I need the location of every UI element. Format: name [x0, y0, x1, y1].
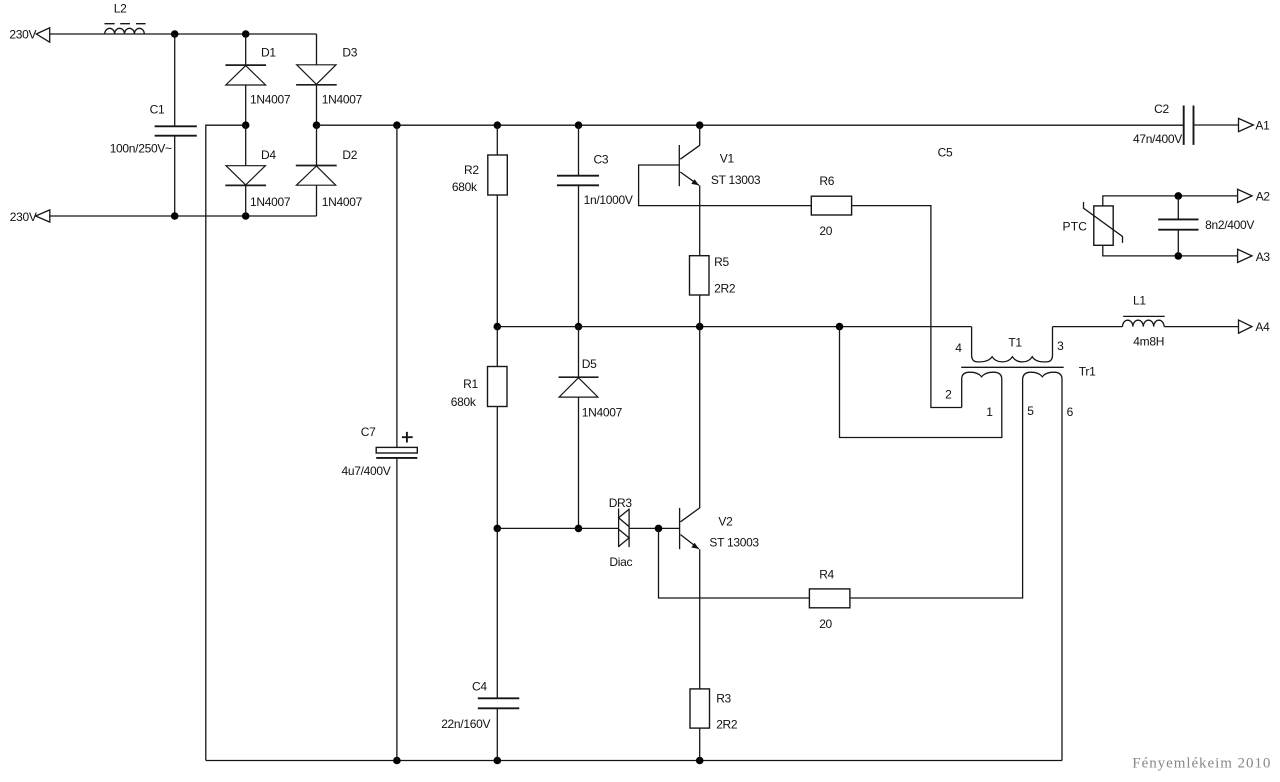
svg-text:4m8H: 4m8H	[1133, 334, 1164, 348]
svg-text:A3: A3	[1256, 250, 1271, 264]
diode D3	[296, 65, 337, 85]
junction bottom rail / C4	[494, 757, 502, 765]
transformer feedback winding pins 2-1	[840, 327, 1002, 438]
svg-text:1N4007: 1N4007	[250, 195, 291, 209]
svg-text:2: 2	[945, 388, 952, 402]
wire C4 bottom	[496, 708, 498, 760]
wire D4 column top	[245, 125, 247, 166]
diac DR3	[619, 509, 630, 548]
svg-text:5: 5	[1027, 404, 1034, 418]
wire L1 to A4	[1164, 326, 1238, 328]
svg-text:1: 1	[986, 405, 993, 419]
wire R2 top	[496, 125, 498, 155]
wire C3 bottom	[578, 185, 580, 326]
wire R1 top	[496, 327, 498, 367]
svg-text:C4: C4	[472, 680, 487, 694]
junction mid-right node	[313, 121, 321, 129]
inductor L1 core bar	[1123, 315, 1165, 317]
wire rail326 to L1	[1053, 326, 1123, 328]
diode D2	[296, 166, 337, 186]
svg-text:680k: 680k	[452, 180, 478, 194]
wire bottom AC rail	[50, 215, 317, 217]
svg-text:230V: 230V	[9, 27, 36, 41]
resistor R6	[811, 196, 851, 215]
transformer core	[961, 366, 1063, 368]
wire PTC top to A2	[1103, 196, 1238, 206]
capacitor C4	[478, 698, 520, 708]
connector A2 arrow	[1238, 189, 1252, 202]
wire C1 column bottom	[174, 136, 176, 216]
svg-text:V1: V1	[720, 152, 735, 166]
svg-text:2R2: 2R2	[716, 717, 738, 731]
junction A3 line / 8n2 cap	[1175, 252, 1183, 260]
wire diac to V2 base	[629, 527, 679, 529]
wire D2 to bottom AC rail	[316, 185, 318, 216]
svg-text:A4: A4	[1255, 320, 1270, 334]
svg-text:PTC: PTC	[1063, 220, 1088, 234]
svg-text:R5: R5	[714, 255, 729, 269]
junction bottom AC rail / C1	[171, 212, 179, 220]
svg-text:1N4007: 1N4007	[322, 93, 363, 107]
wire C7 column top	[396, 125, 398, 447]
svg-text:R2: R2	[464, 163, 479, 177]
diode D1	[225, 65, 266, 85]
svg-text:20: 20	[819, 617, 832, 631]
svg-text:4u7/400V: 4u7/400V	[342, 464, 391, 478]
wire C2 to A1	[1194, 124, 1239, 126]
diode D5	[559, 377, 599, 397]
svg-text:R3: R3	[716, 691, 731, 705]
svg-text:C5: C5	[938, 146, 953, 160]
svg-text:R4: R4	[819, 568, 834, 582]
junction rail528 / R4 drop	[655, 525, 663, 533]
transformer T1 primary winding pins 4-3	[972, 327, 1053, 362]
svg-text:C3: C3	[594, 152, 609, 166]
junction DC plus / C7	[393, 121, 401, 129]
svg-text:R1: R1	[463, 377, 478, 391]
wire V1 base loop to R6	[639, 165, 812, 206]
svg-text:2R2: 2R2	[714, 281, 736, 295]
wire C7 column bottom	[396, 458, 398, 761]
svg-text:T1: T1	[1008, 336, 1022, 350]
wire D5 top	[578, 327, 580, 378]
wire bottom DC minus rail	[206, 760, 1062, 762]
svg-text:C7: C7	[361, 425, 376, 439]
wire D1 column top	[245, 34, 247, 65]
connector 230V top input arrow	[36, 28, 49, 42]
diode D4	[225, 166, 266, 186]
transformer secondary winding pins 5-6	[1023, 372, 1062, 760]
wire R2 bottom	[496, 195, 498, 327]
junction mid-left node	[242, 121, 250, 129]
capacitor 8n2/400V	[1158, 196, 1198, 256]
wire top AC rail right segment	[105, 33, 317, 35]
svg-text:Fényemlékeim 2010: Fényemlékeim 2010	[1132, 755, 1271, 771]
svg-text:L2: L2	[114, 1, 127, 15]
junction DC plus / R2	[494, 121, 502, 129]
wire R4 to T1 pin 5	[850, 380, 1023, 598]
resistor R2	[488, 155, 508, 195]
label + (C7 polarity)	[402, 432, 413, 443]
svg-text:V2: V2	[718, 514, 733, 528]
svg-text:D4: D4	[261, 148, 276, 162]
resistor R4	[809, 589, 850, 608]
junction top rail / C1	[171, 30, 179, 38]
wire C3 top	[578, 125, 580, 176]
svg-text:D5: D5	[582, 357, 597, 371]
junction top rail / D1	[242, 30, 250, 38]
wire R3 bottom	[699, 728, 701, 760]
svg-text:6: 6	[1067, 405, 1074, 419]
resistor R3	[690, 689, 710, 728]
wire C4 top	[496, 528, 498, 698]
wire rail326 left part	[497, 326, 971, 328]
inductor L2 core dashes	[105, 23, 146, 25]
wire D2 column top	[316, 125, 318, 165]
junction rail326 / R1	[494, 323, 502, 331]
junction bottom rail / C7	[393, 757, 401, 765]
wire R5 bottom	[699, 295, 701, 327]
svg-text:1n/1000V: 1n/1000V	[584, 193, 633, 207]
thermistor PTC	[1084, 202, 1123, 245]
junction DC plus / V1 collector	[696, 121, 704, 129]
svg-text:D2: D2	[342, 148, 357, 162]
junction bottom AC rail / D4	[242, 212, 250, 220]
wire D5 bottom	[578, 397, 580, 528]
svg-text:L1: L1	[1133, 294, 1146, 308]
wire D1 to mid-left node	[245, 85, 247, 125]
junction rail528 / C4	[494, 525, 502, 533]
inductor L2	[105, 28, 145, 34]
svg-text:DR3: DR3	[609, 496, 633, 510]
svg-text:D1: D1	[261, 46, 276, 60]
svg-text:C1: C1	[150, 103, 165, 117]
svg-text:Diac: Diac	[609, 555, 632, 569]
inductor L1	[1123, 320, 1165, 326]
capacitor C1	[155, 126, 197, 135]
wire DC plus to C2 done above; capacitor C2	[1184, 106, 1194, 145]
wire D3 to mid-right node	[316, 85, 318, 125]
svg-text:1N4007: 1N4007	[322, 195, 363, 209]
junction rail528 / D5	[575, 525, 583, 533]
transistor V1	[679, 145, 699, 186]
svg-text:4: 4	[955, 341, 962, 355]
svg-text:ST 13003: ST 13003	[709, 535, 759, 549]
connector 230V bottom input arrow	[36, 210, 50, 222]
svg-text:D3: D3	[342, 46, 357, 60]
wire rail528 left part	[497, 527, 618, 529]
svg-text:3: 3	[1057, 339, 1064, 353]
svg-text:100n/250V~: 100n/250V~	[110, 141, 172, 155]
wire mid-left node to DC minus drop	[206, 125, 246, 760]
svg-text:47n/400V: 47n/400V	[1133, 132, 1182, 146]
wire rail528 drop to R4	[659, 528, 810, 598]
wire D4 to bottom AC rail	[245, 185, 247, 216]
svg-text:1N4007: 1N4007	[250, 93, 291, 107]
connector A4 arrow	[1239, 320, 1252, 333]
svg-text:R6: R6	[819, 174, 834, 188]
svg-text:1N4007: 1N4007	[582, 405, 623, 419]
wire R1 bottom	[496, 407, 498, 529]
wire D3 column top	[316, 34, 318, 65]
junction A2 line / 8n2 cap	[1175, 192, 1183, 200]
resistor R1	[488, 367, 508, 407]
svg-text:22n/160V: 22n/160V	[441, 717, 490, 731]
junction rail326 / feedback loop	[836, 323, 844, 331]
connector A3 arrow	[1238, 249, 1252, 262]
capacitor C7 (electrolytic)	[376, 447, 417, 458]
junction bottom rail / R3	[696, 757, 704, 765]
wire V2 emitter	[699, 549, 701, 689]
wire C1 column top	[174, 34, 176, 126]
svg-text:Tr1: Tr1	[1079, 364, 1096, 378]
svg-text:20: 20	[819, 224, 832, 238]
wire V1 collector	[699, 125, 701, 145]
wire V2 collector	[699, 327, 701, 509]
svg-text:C2: C2	[1154, 102, 1169, 116]
junction DC plus / C3	[575, 121, 583, 129]
wire PTC bottom to A3	[1103, 245, 1238, 256]
wire R6 to T1 pin 2	[852, 206, 962, 408]
resistor R5	[690, 256, 710, 295]
svg-text:680k: 680k	[451, 395, 477, 409]
junction rail326 / D5	[575, 323, 583, 331]
wire DC plus rail	[317, 124, 1184, 126]
wire V1 emitter	[699, 185, 701, 255]
wire top AC rail left segment	[50, 33, 105, 35]
svg-text:ST 13003: ST 13003	[711, 173, 761, 187]
svg-text:A1: A1	[1255, 119, 1270, 133]
connector A1 arrow	[1239, 118, 1254, 131]
junction rail326 / V2 collector	[696, 323, 704, 331]
svg-text:8n2/400V: 8n2/400V	[1205, 218, 1254, 232]
svg-text:230V: 230V	[10, 210, 37, 224]
svg-text:A2: A2	[1256, 190, 1271, 204]
capacitor C3	[557, 176, 599, 186]
transistor V2	[680, 508, 700, 549]
